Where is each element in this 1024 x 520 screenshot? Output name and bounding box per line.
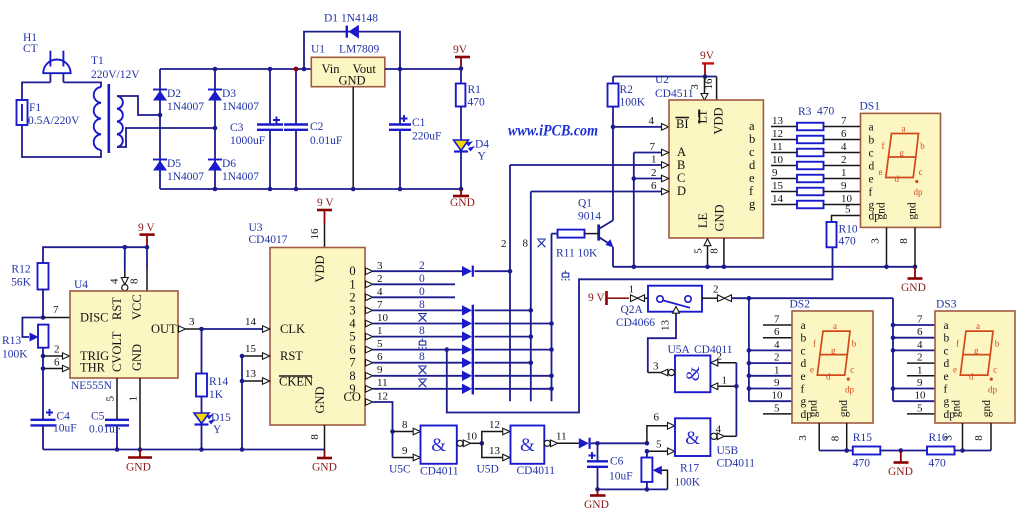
svg-text:Y: Y [213,424,222,436]
wire A-C tie vertical [632,153,637,270]
svg-text:1: 1 [349,277,355,291]
svg-text:5: 5 [917,403,923,415]
svg-text:10: 10 [915,390,927,402]
svg-text:R13: R13 [2,335,21,347]
svg-text:8: 8 [419,299,425,311]
svg-text:D3: D3 [222,88,236,100]
wire DS2 f pin 9 [747,377,792,391]
LED D15 [194,412,231,450]
svg-text:1N4148: 1N4148 [341,13,378,25]
svg-text:8: 8 [349,369,355,383]
svg-text:8: 8 [709,248,721,254]
svg-text:0.01uF: 0.01uF [89,424,121,436]
display DS2 [790,299,874,424]
wire U5B output pin 4 [711,424,737,440]
pin 2 symbol Q2A [702,284,732,302]
svg-text:C1: C1 [412,117,426,129]
decoder U2 CD4511 [655,74,763,238]
node bridge top-right [213,67,218,72]
diode matrix row5 [462,331,473,342]
wire U2 supply [613,76,717,78]
svg-text:VCC: VCC [130,294,144,320]
wire U3 output 0 [366,260,463,275]
svg-text:1: 1 [629,284,635,296]
diode matrix row8 [462,370,473,381]
wire plug to loop [22,73,101,100]
svg-text:CD4011: CD4011 [517,465,556,477]
svg-text:U5B: U5B [717,445,739,457]
svg-text:CD4017: CD4017 [249,234,288,246]
svg-text:C3: C3 [230,122,244,134]
svg-text:a: a [976,321,980,331]
svg-text:DS1: DS1 [860,101,881,113]
svg-text:12: 12 [489,419,500,431]
svg-text:16: 16 [309,228,321,240]
node DISC junction [41,315,46,320]
svg-text:1: 1 [377,325,383,337]
wire emitter ground line [613,266,915,268]
node secondary-right junction [213,126,218,131]
svg-text:gnd: gnd [838,400,850,418]
wire DISC pin 7 [43,304,70,318]
svg-text:2: 2 [501,238,507,250]
svg-text:RST: RST [110,297,124,320]
svg-text:2: 2 [349,290,355,304]
svg-text:9 V: 9 V [317,197,334,209]
wire DS3 gnd pin 3 [943,423,965,453]
svg-text:&: & [685,428,700,449]
diode matrix row7 [462,357,473,368]
svg-text:CD4011: CD4011 [694,344,733,356]
svg-text:CVOLT: CVOLT [110,331,124,372]
svg-text:1N4007: 1N4007 [167,171,204,183]
svg-text:1000uF: 1000uF [230,135,265,147]
svg-text:d: d [944,358,950,370]
svg-text:5: 5 [105,396,117,402]
svg-text:GND: GND [888,466,913,478]
node R17 top junction [645,449,650,454]
wire DS3 stub dp pin 5 [907,403,935,415]
node VCC supply junction [145,245,150,250]
svg-text:a: a [944,320,949,332]
wire DS1 gnd pin 3 [870,227,889,269]
svg-text:3: 3 [189,316,195,328]
node D1 right [398,67,403,72]
svg-text:e: e [879,167,883,177]
svg-text:2: 2 [717,351,723,363]
svg-text:Q1: Q1 [578,198,592,210]
svg-text:2: 2 [774,352,780,364]
display DS1 [860,101,941,228]
svg-text:6: 6 [349,343,355,357]
svg-text:gnd: gnd [906,202,918,220]
svg-text:9: 9 [774,377,780,389]
svg-text:2: 2 [917,352,923,364]
wire DS3 f pin 9 [891,377,935,391]
svg-text:6: 6 [841,128,847,140]
svg-text:2: 2 [54,344,60,356]
svg-text:6: 6 [917,326,923,338]
svg-text:R17: R17 [680,463,699,475]
svg-text:8: 8 [309,434,321,440]
node U5B input junction [645,441,650,446]
svg-text:14: 14 [772,193,784,205]
svg-text:7: 7 [53,304,59,316]
node bridge bottom-right [213,187,218,192]
wire dian net bracket [447,247,833,412]
svg-text:C: C [677,171,685,185]
svg-text:R12: R12 [11,264,30,276]
svg-text:e: e [749,171,755,185]
svg-text:U4: U4 [74,279,88,291]
power 9V rail top [453,44,470,71]
svg-text:3: 3 [797,435,809,441]
svg-text:D15: D15 [211,412,231,424]
wire OUT pin 3 [179,316,202,332]
svg-text:d: d [869,161,875,173]
node row5-D [529,334,534,339]
wire BI pin 4 [613,115,669,130]
svg-text:f: f [801,384,805,396]
svg-text:RST: RST [280,349,303,363]
svg-text:8: 8 [419,325,425,337]
capacitor C1 [389,69,441,191]
svg-text:470: 470 [468,97,486,109]
svg-text:3: 3 [870,238,882,244]
svg-text:10: 10 [772,390,784,402]
wire CLK input pin 14 [263,326,270,333]
svg-text:7: 7 [917,314,923,326]
svg-text:Y: Y [478,151,487,163]
wire 555 GND pin 1 [128,378,141,450]
wire D1 bypass loop [304,32,400,69]
wire U3 output 3 [366,299,463,314]
svg-text:b: b [749,132,755,146]
wire row6 to col M [475,349,552,351]
svg-text:DISC: DISC [80,311,108,325]
svg-text:U3: U3 [249,222,263,234]
resistor R2 [608,77,646,127]
svg-text:1: 1 [128,396,140,402]
svg-text:g: g [749,197,756,211]
svg-text:11: 11 [556,431,567,443]
wire VCC pin 8 [129,247,148,291]
wire DS2 e pin 1 [747,365,792,379]
wire U5A pin 1 [711,375,737,390]
node row4-M [549,321,554,326]
diode matrix cathode bar [472,305,474,394]
wire U5A pin 2 [711,351,737,367]
diode matrix row3 [462,305,473,316]
node secondary-left junction [158,113,163,118]
wire top rail [160,68,311,70]
wire U5C output pin 10 [457,431,482,447]
diode matrix row9 [462,383,473,394]
ground GND at D4 [450,189,475,209]
svg-text:R3: R3 [798,106,812,118]
svg-text:a: a [749,119,755,133]
ground GND at DS1 [901,267,926,294]
svg-text:8: 8 [419,351,425,363]
svg-text:LM7809: LM7809 [339,44,380,56]
svg-text:c: c [801,345,806,357]
svg-text:GND: GND [450,197,475,209]
svg-text:THR: THR [80,361,106,375]
power 9V at Q2A [588,291,629,305]
svg-text:9V: 9V [700,50,715,62]
svg-text:f: f [956,339,959,349]
wire U5C pin 9 [393,445,421,461]
wire DS3 stub e pin 1 [907,365,935,377]
wire row9 to col M [475,388,552,390]
svg-text:e: e [801,371,806,383]
svg-text:56K: 56K [11,277,32,289]
node RST supply junction [123,245,128,250]
svg-text:e: e [944,371,949,383]
svg-text:&: & [431,435,446,456]
seven segment figure DS1 [879,124,926,198]
diode matrix row0 [462,266,473,277]
svg-text:5: 5 [845,204,851,216]
svg-text:CT: CT [23,43,38,55]
resistor R3c [771,141,861,156]
wire DS2 c pin 4 [747,339,792,353]
svg-text:1: 1 [651,154,657,166]
diode D16 after U5D [579,438,590,449]
wire DS2 d pin 2 [747,352,792,366]
resistor R1 [456,69,485,141]
svg-text:CD4011: CD4011 [420,466,459,478]
svg-text:R15: R15 [853,432,872,444]
svg-text:1: 1 [722,375,728,387]
diode D5 [153,158,204,183]
wire U5D pin 12 [482,419,510,443]
svg-text:D1: D1 [324,13,338,25]
svg-text:GND: GND [339,74,366,88]
wire RST pin 15 [242,343,270,359]
svg-text:2: 2 [419,260,425,272]
wire DS2 gnd pin 3 [797,423,819,451]
svg-text:1N4007: 1N4007 [222,171,259,183]
wire DS1 gnd pin 8 [898,227,915,266]
wire column M blank [551,234,553,402]
resistor R10 [827,222,858,248]
svg-text:f: f [813,339,816,349]
wire Q2A output to displays [731,297,893,299]
wire column B digit2 [509,165,511,401]
svg-text:d: d [826,372,831,382]
diode matrix row6 [462,344,473,355]
svg-text:2: 2 [377,273,383,285]
svg-text:f: f [869,187,873,199]
svg-text:1: 1 [774,365,780,377]
wire U3 output 5 [366,325,463,340]
svg-text:9: 9 [349,382,355,396]
wire row8 to col M [475,375,552,377]
wire C6 R17 ground link [598,488,668,490]
svg-text:5: 5 [774,403,780,415]
wire RST-CKEN to ground [240,354,245,452]
wire U3 output 1 [366,273,456,288]
ground GND at C6 [584,489,609,511]
svg-text:10: 10 [377,312,389,324]
svg-text:A: A [677,145,686,159]
wire bridge left vertical [159,69,161,189]
resistor R14 [196,329,228,413]
svg-text:CLK: CLK [280,322,305,336]
svg-text:U5C: U5C [389,464,411,476]
svg-text:B: B [677,158,685,172]
svg-text:&: & [683,366,704,381]
svg-text:a: a [801,320,806,332]
diode matrix row4 [462,318,473,329]
svg-text:d: d [969,372,974,382]
svg-text:gnd: gnd [951,400,963,418]
node OUT junction R14 [199,327,204,332]
node row6-M [549,347,554,352]
wire bridge right vertical [214,69,216,189]
svg-text:9 V: 9 V [588,292,605,304]
wire dp pin 5 [832,204,861,223]
svg-text:d: d [895,174,900,184]
svg-text:6: 6 [377,351,383,363]
node C5 rail [115,447,120,452]
svg-text:8: 8 [830,435,842,441]
ground GND at U4 [126,450,152,474]
svg-text:6: 6 [651,180,657,192]
wire U5B pin 6 [647,412,675,444]
node 555 gnd rail [138,447,143,452]
wire Q1 collector [612,127,614,220]
power 9V at U4 [138,222,155,247]
svg-text:4: 4 [349,317,356,331]
wire RST pin 4 [109,247,129,291]
ground GND at U3 [312,451,337,474]
svg-text:LT: LT [696,109,710,123]
capacitor C2 [284,67,342,192]
svg-text:C2: C2 [310,121,324,133]
svg-text:10: 10 [772,154,784,166]
svg-text:CD4511: CD4511 [655,88,694,100]
resistor R12 [11,263,48,318]
wire U3 output 6 [366,338,463,353]
svg-text:5: 5 [656,439,662,451]
svg-text:15: 15 [772,180,784,192]
svg-text:5: 5 [377,338,383,350]
svg-text:7: 7 [774,314,780,326]
wire U1 output [385,68,461,70]
wire THR pin 6 [43,357,70,372]
svg-text:OUT: OUT [151,322,177,336]
wire LT pin 3 [689,77,708,101]
svg-text:c: c [919,167,923,177]
svg-text:e: e [953,365,957,375]
svg-text:R1: R1 [468,84,482,96]
diode D2 [153,88,204,113]
wire diode to gate inputs [591,442,647,444]
svg-text:VDD: VDD [712,107,726,134]
svg-text:BI: BI [676,117,689,131]
wire CVOLT pin 5 [105,378,118,420]
wire U3 VDD pin 16 [309,223,325,248]
node D1 left [302,67,307,72]
power 9V at U2 [700,50,715,79]
svg-text:11: 11 [377,377,388,389]
node row9-M [549,387,554,392]
svg-text:9 V: 9 V [138,222,155,234]
svg-text:1N4007: 1N4007 [222,101,259,113]
node dian label [562,271,570,281]
wire DS3 c pin 4 [891,339,935,353]
node CO-U5C junction [390,429,395,434]
wire U3 GND pin 8 [309,425,325,451]
timer U4 NE555 [70,279,178,392]
svg-text:D2: D2 [167,88,181,100]
wire CLK link to U3 [202,316,263,329]
svg-text:Q2A: Q2A [621,304,644,316]
svg-text:3: 3 [653,361,659,373]
svg-text:9: 9 [841,180,847,192]
svg-text:LE: LE [696,213,710,229]
capacitor C6 [587,443,633,489]
svg-text:13: 13 [489,445,501,457]
wire row7 to col D [475,362,531,364]
svg-text:7: 7 [377,299,383,311]
capacitor C5 [89,411,129,450]
wire input B pin 1 [510,154,669,169]
svg-text:D4: D4 [475,139,489,151]
svg-text:0: 0 [419,273,425,285]
wire feedback vertical [735,363,737,437]
svg-text:dp: dp [845,385,855,395]
wire DS3 feed vertical [892,298,894,401]
wire DS2 stub a pin 7 [763,314,792,326]
transistor Q1 [578,198,614,267]
wire U1 gnd pin [352,87,354,189]
node TRIG junction [41,354,46,359]
svg-text:U1: U1 [311,44,325,56]
svg-text:7: 7 [841,115,847,127]
wire DS2 feed vertical [748,298,750,401]
resistor R16 [901,432,963,470]
svg-text:VDD: VDD [313,255,327,282]
svg-text:12: 12 [377,391,388,403]
svg-text:GND: GND [584,499,609,511]
nand gate U5C [389,426,459,478]
diode D1 [324,13,378,39]
svg-text:9: 9 [402,445,408,457]
wire DS3 cathode link [963,450,992,452]
counter U3 CD4017 [249,222,366,425]
svg-text:c: c [869,148,874,160]
svg-text:7: 7 [650,141,656,153]
fuse F1 [17,100,81,127]
svg-text:c: c [850,365,854,375]
svg-text:0.01uF: 0.01uF [310,135,342,147]
svg-text:GND: GND [312,462,337,474]
wire secondary top [117,96,160,115]
svg-text:a: a [902,124,906,134]
svg-text:GND: GND [713,204,727,231]
svg-text:GND: GND [126,462,151,474]
svg-text:DS3: DS3 [936,299,957,311]
svg-text:b: b [852,339,857,349]
svg-text:f: f [882,141,885,151]
svg-text:3: 3 [943,435,955,441]
resistor R15 [853,432,901,470]
svg-text:D5: D5 [167,158,181,170]
wire loop bottom [22,125,101,157]
